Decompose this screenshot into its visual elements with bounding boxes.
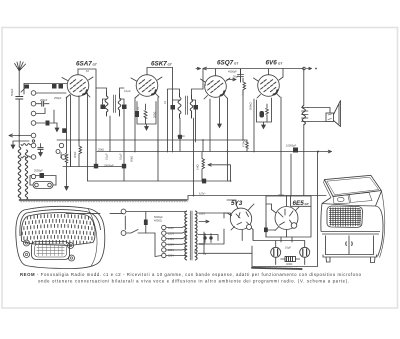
- switch circle B3: [56, 150, 60, 154]
- arrow top bus left: [203, 67, 207, 70]
- svg-text:1MΩ: 1MΩ: [196, 164, 200, 170]
- capacitor on B+ right: [293, 148, 298, 153]
- wire switch down-left: [13, 141, 29, 144]
- transformer power: [185, 211, 197, 260]
- knob 4: [69, 255, 75, 261]
- resistor 300ohm vertical: [79, 140, 82, 167]
- 6E5 enclosure box: [252, 152, 318, 267]
- electrolytic cap 2: [300, 243, 310, 262]
- vertical wires mid: [71, 69, 292, 196]
- tube 6SK7: [131, 68, 173, 99]
- dot caps pair: [203, 236, 206, 239]
- padder oval: [30, 176, 56, 189]
- capacitor 250pF: [36, 101, 49, 106]
- hatch segment bottom: [252, 268, 302, 269]
- band switch column A: [31, 91, 36, 160]
- svg-text:250pF: 250pF: [40, 98, 48, 102]
- svg-text:6SA7: 6SA7: [76, 60, 92, 67]
- capacitor bus181: [202, 179, 206, 184]
- top deck edges: [322, 191, 382, 206]
- resistor 50k vertical: [65, 97, 68, 184]
- svg-text:350V: 350V: [199, 212, 205, 216]
- capacitor black C3: [59, 84, 64, 89]
- arrow from T2: [196, 67, 201, 69]
- tube labels: [76, 59, 310, 207]
- turntable well: [333, 195, 350, 204]
- svg-text:125V: 125V: [168, 232, 174, 236]
- voltage selector: [162, 225, 166, 257]
- svg-text:160V: 160V: [168, 243, 174, 247]
- capacitor 4000pF: [238, 69, 244, 82]
- switch circle B2: [59, 143, 63, 147]
- svg-text:200V: 200V: [168, 248, 174, 252]
- wire osc: [21, 144, 31, 146]
- console cabinet bottom-right: [321, 175, 385, 262]
- output transformer: [302, 106, 309, 125]
- left column wires power area: [66, 213, 125, 229]
- svg-text:30kΩ: 30kΩ: [278, 193, 284, 197]
- svg-text:470kΩ: 470kΩ: [177, 134, 185, 138]
- capacitor mid2: [122, 164, 126, 169]
- svg-text:50kΩ: 50kΩ: [59, 152, 63, 158]
- tube 5Y3: [227, 205, 253, 231]
- caption line 1: [20, 272, 362, 284]
- wires 5Y3: [224, 200, 254, 241]
- svg-text:4000pF: 4000pF: [228, 70, 237, 74]
- knob 1: [24, 240, 30, 246]
- node junction antenna: [18, 135, 20, 137]
- arrow continuation: [307, 67, 312, 69]
- wire top bus y83.5: [24, 83, 67, 85]
- knob 2: [68, 243, 74, 249]
- capacitor osc grid: [62, 128, 66, 133]
- capacitor 40uF + ground: [38, 148, 43, 150]
- junction circle OT: [303, 67, 306, 70]
- arrow B+ end: [318, 150, 332, 153]
- svg-text:0,1µF: 0,1µF: [119, 153, 123, 160]
- dial window: [32, 242, 70, 260]
- switch blade: [126, 230, 155, 234]
- wires 6V6 down: [254, 97, 281, 196]
- wires 6E5 area: [266, 196, 292, 242]
- capacitor black C2: [52, 84, 57, 89]
- svg-text:5Y3: 5Y3: [231, 200, 243, 207]
- handle right: [351, 242, 354, 246]
- cabinet side panel line: [88, 209, 97, 267]
- wires 6SK7 down: [135, 97, 158, 181]
- junction dots: [78, 139, 319, 196]
- svg-text:350V: 350V: [199, 242, 205, 246]
- svg-text:REOM - Fonovaligia Radio modd.: REOM - Fonovaligia Radio modd. c1 e c2 -…: [20, 272, 362, 277]
- handle left: [345, 242, 348, 246]
- grille hatch: [21, 214, 94, 245]
- svg-text:400Ω: 400Ω: [286, 262, 292, 266]
- trimmer: [21, 84, 28, 95]
- grille outline: [21, 213, 95, 246]
- arrow sec: [199, 220, 209, 223]
- body left edge: [321, 204, 322, 232]
- svg-text:500kΩ: 500kΩ: [249, 102, 253, 110]
- choke filter: [281, 257, 300, 262]
- svg-text:250pF: 250pF: [54, 96, 62, 100]
- svg-text:0,1: 0,1: [163, 100, 167, 104]
- dial panel: [327, 206, 363, 228]
- wire grid: [36, 92, 66, 94]
- IF transformer T2: [178, 93, 193, 118]
- oscillator coil scalloped: [18, 147, 21, 200]
- tube 6E5: [272, 201, 300, 237]
- wire node y113: [36, 108, 45, 114]
- IF transformer T1: [105, 92, 121, 116]
- svg-text:0,1µF: 0,1µF: [124, 89, 131, 93]
- knob 3: [24, 252, 30, 258]
- svg-text:16µF: 16µF: [285, 246, 291, 250]
- ground below 50k: [65, 184, 69, 190]
- dot top right: [315, 68, 317, 70]
- antenna: [15, 61, 26, 95]
- 6V6 cathode network: [257, 98, 272, 129]
- svg-text:10000pF: 10000pF: [286, 144, 297, 148]
- wires PSU bottom: [253, 230, 305, 265]
- wires T2: [168, 68, 204, 197]
- body right edge curved: [376, 206, 384, 257]
- svg-text:140V: 140V: [168, 237, 174, 241]
- svg-text:25kΩ: 25kΩ: [98, 148, 104, 152]
- svg-text:6E5: 6E5: [293, 200, 305, 207]
- wire y140: [57, 139, 247, 141]
- svg-text:300Ω: 300Ω: [153, 112, 157, 118]
- wire stub to coil: [18, 136, 20, 148]
- svg-text:onde ottenere conversazioni bi: onde ottenere conversazioni bilaterali a…: [38, 279, 349, 284]
- capacitor 2000uF: [33, 173, 52, 178]
- svg-text:5V: 5V: [203, 252, 206, 256]
- electrolytic cap 1: [271, 243, 281, 262]
- ground left arrow: [11, 144, 15, 149]
- svg-text:470kΩ: 470kΩ: [242, 139, 246, 147]
- capacitor T1 right: [122, 105, 127, 110]
- heater line y196: [188, 195, 326, 197]
- svg-text:500pF: 500pF: [10, 88, 14, 96]
- fuse: [144, 220, 148, 226]
- wire 6V6 plate to OT: [282, 69, 284, 78]
- resistor 470k vertical: [246, 140, 249, 152]
- oscillator coil 2 scalloped: [25, 150, 27, 199]
- power terminals: [121, 209, 126, 235]
- svg-text:110V: 110V: [168, 226, 174, 230]
- capacitor mid1: [94, 164, 98, 169]
- svg-text:5000µF: 5000µF: [154, 215, 163, 219]
- wires T1 bottom: [78, 69, 124, 164]
- capacitor T2 right: [194, 105, 199, 110]
- svg-text:6V6: 6V6: [266, 59, 278, 66]
- capacitor black C1: [25, 85, 30, 89]
- secondary taps: [198, 213, 252, 253]
- wire speaker down: [303, 69, 305, 196]
- capacitor small mica: [36, 110, 59, 132]
- arrow mid AVC right: [227, 78, 236, 81]
- svg-text:4000Ω: 4000Ω: [154, 219, 162, 223]
- svg-text:6SK7: 6SK7: [151, 60, 167, 67]
- svg-text:5V: 5V: [193, 250, 197, 253]
- wires 6SA7 pins down: [71, 93, 88, 181]
- speaker: [308, 101, 341, 127]
- volume pot: [202, 152, 231, 181]
- cabinet outline: [16, 206, 105, 268]
- base: [323, 255, 377, 263]
- svg-text:220V: 220V: [168, 254, 174, 258]
- resistor vertical right of 6SQ7: [243, 78, 246, 95]
- svg-text:6,3V~: 6,3V~: [199, 192, 206, 196]
- tube 6SA7: [62, 69, 93, 98]
- shelf line: [321, 231, 380, 233]
- wires T1 top: [96, 88, 124, 104]
- tiny value labels: [10, 69, 297, 266]
- capacitor T1 left: [101, 105, 106, 110]
- wires 6SQ7 down + ground: [219, 98, 221, 126]
- capacitor T2 left: [171, 105, 176, 110]
- svg-text:0,1: 0,1: [136, 106, 140, 110]
- hatched boundary horizontal: [20, 199, 188, 201]
- taps to selector: [166, 226, 187, 256]
- cap small at 6E5 left: [264, 228, 268, 233]
- svg-text:300Ω: 300Ω: [73, 152, 77, 158]
- svg-text:10000pF: 10000pF: [104, 163, 115, 167]
- B+ bus y151.5: [97, 151, 318, 153]
- band switch column B: [61, 155, 66, 160]
- tube 6V6: [254, 69, 284, 98]
- lid open: [324, 175, 381, 196]
- right compartment: [350, 193, 373, 203]
- capacitor T2 bottom: [178, 135, 182, 139]
- top bus y68.5: [203, 68, 304, 70]
- capacitor C-ant 500pF: [16, 97, 23, 136]
- tube 6SQ7: [201, 69, 231, 99]
- bus y166.5: [63, 166, 124, 168]
- switch circle A9: [31, 174, 35, 178]
- doors: [326, 236, 374, 255]
- svg-text:2000µF: 2000µF: [34, 169, 43, 173]
- 6SK7 cathode network: [135, 102, 156, 131]
- arrow left AVC: [9, 134, 31, 137]
- svg-text:50kΩ: 50kΩ: [130, 156, 134, 162]
- bus y181: [88, 180, 231, 182]
- svg-text:0,1µF: 0,1µF: [105, 153, 109, 160]
- svg-text:50pF: 50pF: [233, 75, 239, 79]
- svg-text:6SQ7: 6SQ7: [217, 59, 234, 66]
